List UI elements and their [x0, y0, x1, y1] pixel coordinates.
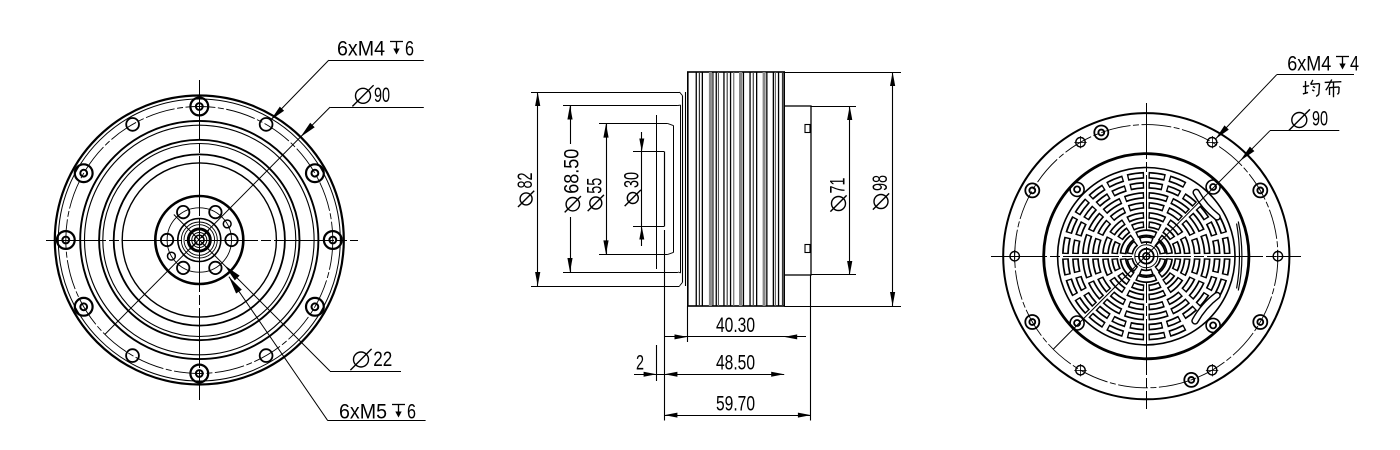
svg-text:22: 22 — [373, 348, 392, 371]
dim D98 — [784, 72, 901, 74]
front face rings — [80, 121, 318, 359]
rear M4 hole at 60 deg — [1207, 138, 1216, 147]
front bolt circle D90 — [66, 107, 333, 374]
rear M4 hole at 0 deg — [1273, 252, 1282, 261]
dim D82 — [537, 92, 539, 286]
dim D55 — [606, 124, 608, 255]
M5 tapped hole at 0 deg — [225, 234, 237, 246]
hub bolt circle D22 — [167, 208, 231, 272]
M4 tapped hole at 120 deg — [126, 118, 139, 131]
svg-text:90: 90 — [374, 84, 390, 107]
rear screw hole at 290 deg — [1184, 373, 1198, 387]
M5 tapped hole at 240 deg — [177, 262, 189, 274]
svg-text:98: 98 — [869, 175, 892, 191]
shaft center detail — [195, 235, 204, 244]
rear bolt circle D90 — [1015, 125, 1278, 388]
curved slot lower right — [1195, 296, 1217, 321]
svg-text:4: 4 — [1350, 53, 1359, 76]
dim D30 — [641, 132, 643, 246]
case screw at 136 deg — [1070, 182, 1084, 196]
rear screw hole at 30 deg — [1253, 183, 1267, 197]
connector marks — [805, 125, 810, 133]
dim 59.70 — [810, 275, 812, 421]
rear outer circle — [1003, 113, 1289, 399]
svg-text:6xM5: 6xM5 — [339, 401, 387, 424]
svg-text:90: 90 — [1312, 107, 1328, 130]
svg-text:55: 55 — [584, 178, 607, 194]
rear hub — [1143, 253, 1150, 260]
svg-text:30: 30 — [620, 172, 643, 188]
rear M4 hole at 240 deg — [1076, 366, 1085, 375]
svg-text:2: 2 — [636, 352, 644, 375]
case screw at 224 deg — [1070, 316, 1084, 330]
M4 tapped hole at 240 deg — [126, 349, 139, 362]
dowel hole at 210 deg — [168, 252, 176, 260]
leader D90 rear — [1270, 130, 1339, 132]
rear housing D71 — [784, 106, 811, 275]
svg-text:6: 6 — [407, 401, 416, 424]
rear screw hole at 330 deg — [1253, 315, 1267, 329]
front view centerlines — [46, 240, 358, 242]
rear view centerlines — [991, 256, 1301, 258]
lens feature right — [1238, 222, 1242, 291]
grille plate edge — [1058, 168, 1235, 345]
svg-text:6xM4: 6xM4 — [1287, 53, 1331, 76]
hub boss D30 — [155, 196, 243, 284]
flange screw hole at 270 deg — [190, 365, 208, 383]
flange screw hole at 180 deg — [57, 231, 75, 249]
flange screw hole at 90 deg — [190, 98, 208, 116]
M5 tapped hole at 60 deg — [209, 206, 221, 218]
dowel hole at 30 deg — [223, 220, 231, 228]
svg-text:71: 71 — [827, 178, 850, 194]
dim 48.50 — [656, 345, 658, 381]
case screw at 314 deg — [1206, 318, 1220, 332]
svg-text:6: 6 — [405, 38, 414, 61]
leader 6xM4 depth 6 — [329, 60, 424, 62]
leader 6xM5 depth 6 — [328, 420, 426, 422]
disc D55 — [599, 123, 668, 125]
front view outer flange circle D98 — [55, 96, 344, 385]
leader D22 — [330, 371, 401, 373]
leader D90 front — [330, 107, 424, 109]
rear M4 hole at 180 deg — [1010, 252, 1019, 261]
rear screw hole at 210 deg — [1025, 315, 1039, 329]
M4 tapped hole at 300 deg — [260, 349, 273, 362]
flange screw hole at 210 deg — [75, 298, 93, 316]
M5 tapped hole at 300 deg — [209, 262, 221, 274]
rear M4 hole at 120 deg — [1076, 138, 1085, 147]
curved slot upper right — [1196, 192, 1217, 217]
boss D30 — [633, 151, 664, 153]
rear screw hole at 150 deg — [1025, 183, 1039, 197]
svg-text:59.70: 59.70 — [716, 393, 755, 416]
svg-text:48.50: 48.50 — [716, 352, 755, 375]
rear screw hole at 110 deg — [1094, 126, 1108, 140]
flange screw hole at 30 deg — [306, 164, 324, 182]
rear body circle — [1044, 154, 1249, 359]
M4 tapped hole at 60 deg — [260, 118, 273, 131]
svg-text:82: 82 — [514, 173, 537, 189]
M5 tapped hole at 180 deg — [161, 234, 173, 246]
side view main body D98 with fins — [688, 72, 784, 306]
dim D68.50 — [570, 106, 572, 145]
flange screw hole at 150 deg — [75, 164, 93, 182]
leader 6xM4 depth 4 rear — [1277, 74, 1354, 76]
flange screw hole at 330 deg — [306, 298, 324, 316]
svg-text:68.50: 68.50 — [561, 149, 584, 194]
dim 40.30 — [687, 306, 689, 342]
cooling fins — [696, 72, 697, 306]
rear M4 hole at 300 deg — [1207, 366, 1216, 375]
flange screw hole at 0 deg — [324, 231, 342, 249]
vent grille slot rings — [1156, 243, 1162, 254]
dim D71 — [811, 106, 856, 108]
case screw at 46 deg — [1206, 180, 1220, 194]
front flange D82 — [531, 92, 680, 94]
svg-text:6xM4: 6xM4 — [337, 38, 385, 61]
text evenly-spaced (CJK) — [1305, 81, 1307, 94]
M5 tapped hole at 120 deg — [177, 206, 189, 218]
disc D68.5 — [563, 105, 678, 107]
svg-text:40.30: 40.30 — [716, 314, 755, 337]
